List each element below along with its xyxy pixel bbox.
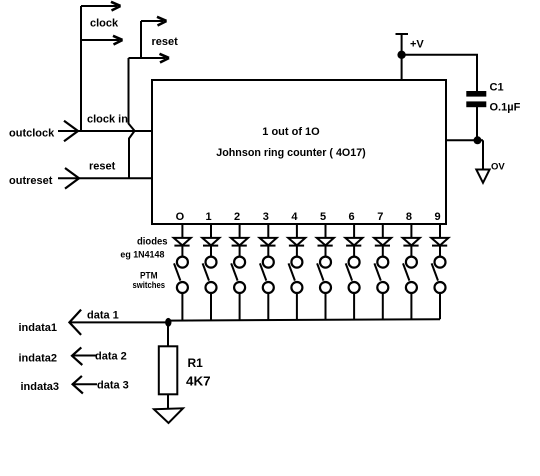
wire +V to C1 xyxy=(402,55,477,92)
wire pin 0 to diode xyxy=(181,224,183,238)
svg-text:data 2: data 2 xyxy=(95,351,127,363)
svg-text:O.1µF: O.1µF xyxy=(490,102,521,114)
diode D4 xyxy=(260,238,277,246)
switch SW3 PTM xyxy=(234,257,245,268)
wire clock net vertical xyxy=(80,6,82,131)
arrow indata1 chevron xyxy=(69,310,81,335)
arrow indata3 chevron xyxy=(73,376,83,394)
wire R1 to ground xyxy=(167,394,169,409)
wire reset net vertical xyxy=(140,21,142,58)
svg-text:3: 3 xyxy=(263,211,269,223)
wire data bus xyxy=(169,319,441,320)
switch SW6 PTM xyxy=(320,257,331,268)
svg-text:outclock: outclock xyxy=(9,128,55,140)
wire pin 9 to diode xyxy=(439,224,441,238)
wire pin 8 to diode xyxy=(410,224,412,238)
wire clock arrow lower xyxy=(81,39,119,41)
wire 0V node down xyxy=(482,140,484,169)
arrow indata2 stub xyxy=(72,355,97,357)
wire C1 to 0V node xyxy=(476,107,478,140)
diode D6 xyxy=(317,238,334,246)
switch SW9 PTM xyxy=(406,257,417,268)
wire switch SW6 to bus xyxy=(325,293,327,320)
wire data 1 line xyxy=(69,321,168,323)
wire pin 3 to diode xyxy=(267,224,269,238)
wire +V vertical into box xyxy=(401,34,403,80)
diode D9 xyxy=(403,238,420,246)
svg-text:4: 4 xyxy=(291,211,298,223)
arrow indata2 chevron xyxy=(72,347,82,365)
arrow indata3 stub xyxy=(72,383,97,385)
svg-text:R1: R1 xyxy=(188,356,204,370)
wire pin 2 to diode xyxy=(239,224,241,238)
ground 0V symbol xyxy=(476,170,489,183)
svg-text:PTM: PTM xyxy=(140,271,158,281)
wire reset drop with jog xyxy=(129,58,135,131)
diode D8 xyxy=(374,238,391,246)
power +V rail bar xyxy=(396,33,409,35)
wire box to 0V node xyxy=(446,139,483,141)
wire clock arrow top xyxy=(81,5,117,7)
switch SW5 PTM xyxy=(291,257,302,268)
switch SW7 PTM xyxy=(349,257,360,268)
wire reset arrow top xyxy=(141,20,163,22)
svg-text:+V: +V xyxy=(410,39,424,51)
switch SW10 PTM xyxy=(435,257,446,268)
wire diode D9 to switch xyxy=(410,246,412,256)
wire node to R1 xyxy=(167,322,169,346)
wire diode D3 to switch xyxy=(239,246,241,256)
wire switch SW10 to bus xyxy=(439,293,441,319)
svg-text:clock in: clock in xyxy=(87,114,128,126)
wire switch SW7 to bus xyxy=(353,293,355,320)
wire outclock line xyxy=(58,130,152,132)
svg-text:OV: OV xyxy=(491,161,505,172)
junction dot data1 node xyxy=(165,318,171,327)
wire switch SW1 to bus xyxy=(181,293,183,321)
wire diode D8 to switch xyxy=(382,246,384,256)
svg-text:data 3: data 3 xyxy=(97,380,129,392)
wire switch SW5 to bus xyxy=(296,293,298,320)
capacitor C1 plates xyxy=(466,91,486,97)
wire diode D2 to switch xyxy=(210,246,212,256)
svg-text:4K7: 4K7 xyxy=(186,375,211,389)
arrow outclock chevron xyxy=(64,121,78,142)
svg-text:1: 1 xyxy=(205,211,211,223)
wire pin 1 to diode xyxy=(210,224,212,238)
svg-text:2: 2 xyxy=(234,211,240,223)
wire pin 4 to diode xyxy=(296,224,298,238)
svg-text:outreset: outreset xyxy=(9,175,53,187)
op IC U1 4017 counter box xyxy=(152,80,446,224)
wire diode D1 to switch xyxy=(181,246,183,256)
svg-text:C1: C1 xyxy=(490,82,504,94)
svg-text:clock: clock xyxy=(90,18,119,30)
svg-text:6: 6 xyxy=(349,211,355,223)
arrow outreset chevron xyxy=(65,168,79,189)
svg-text:7: 7 xyxy=(377,211,383,223)
wire reset arrow lower xyxy=(129,57,166,59)
wire switch SW2 to bus xyxy=(210,293,212,321)
ground below R1 xyxy=(154,408,183,423)
wire pin 7 to diode xyxy=(382,224,384,238)
diode D1 xyxy=(174,238,191,246)
svg-text:O: O xyxy=(176,211,185,223)
svg-text:reset: reset xyxy=(152,36,179,48)
svg-text:diodes: diodes xyxy=(137,236,168,248)
junction dot +V node xyxy=(397,51,405,59)
svg-text:Johnson ring counter ( 4O17): Johnson ring counter ( 4O17) xyxy=(216,147,366,159)
wire switch SW9 to bus xyxy=(410,293,412,320)
wire diode D5 to switch xyxy=(296,246,298,256)
wire pin 5 to diode xyxy=(325,224,327,238)
svg-text:9: 9 xyxy=(434,211,440,223)
diode D10 xyxy=(431,238,448,246)
svg-text:switches: switches xyxy=(133,280,166,290)
svg-text:1 out of 1O: 1 out of 1O xyxy=(262,126,320,138)
svg-text:eg 1N4148: eg 1N4148 xyxy=(120,250,164,260)
wire diode D6 to switch xyxy=(325,246,327,256)
svg-text:indata3: indata3 xyxy=(21,381,60,393)
switch SW1 PTM xyxy=(177,257,188,268)
diode D3 xyxy=(231,238,248,246)
svg-text:8: 8 xyxy=(406,211,412,223)
switch SW4 PTM xyxy=(263,257,274,268)
wire outreset line xyxy=(58,177,152,179)
resistor R1 xyxy=(159,346,178,394)
switch SW8 PTM xyxy=(377,257,388,268)
wire switch SW3 to bus xyxy=(239,293,241,321)
diode D2 xyxy=(202,238,219,246)
svg-text:reset: reset xyxy=(89,161,116,173)
diode D5 xyxy=(288,238,305,246)
switch SW2 PTM xyxy=(206,257,217,268)
wire diode D4 to switch xyxy=(267,246,269,256)
svg-text:data 1: data 1 xyxy=(87,310,119,322)
junction dot 0V node xyxy=(474,136,482,144)
wire switch SW4 to bus xyxy=(267,293,269,320)
diode D7 xyxy=(345,238,362,246)
wire diode D10 to switch xyxy=(439,246,441,256)
svg-text:indata1: indata1 xyxy=(19,322,58,334)
wire switch SW8 to bus xyxy=(382,293,384,320)
wire diode D7 to switch xyxy=(353,246,355,256)
svg-text:indata2: indata2 xyxy=(19,353,58,365)
svg-text:5: 5 xyxy=(320,211,326,223)
wire pin 6 to diode xyxy=(353,224,355,238)
